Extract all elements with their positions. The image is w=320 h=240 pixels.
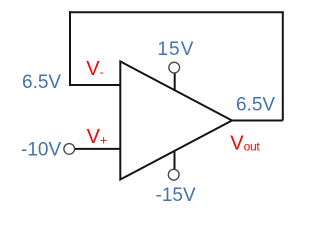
- wire: output from op-amp apex: [232, 120, 283, 122]
- svg-text:V+: V+: [87, 126, 108, 148]
- wire: feedback left vertical: [69, 11, 71, 86]
- terminal circle: +15V supply: [169, 62, 180, 73]
- svg-text:-15V: -15V: [156, 185, 196, 206]
- wire: -15V supply stem: [174, 151, 176, 169]
- op-amp U1: [120, 61, 232, 179]
- wire: +15V supply stem: [174, 73, 176, 90]
- wire: feedback right vertical: [282, 12, 284, 120]
- svg-text:-10V: -10V: [21, 139, 61, 160]
- svg-text:15V: 15V: [157, 39, 194, 60]
- svg-text:V-: V-: [86, 58, 103, 80]
- svg-text:6.5V: 6.5V: [22, 72, 61, 93]
- terminal circle: -10V input: [64, 144, 75, 155]
- svg-text:Vout: Vout: [230, 132, 260, 154]
- svg-text:6.5V: 6.5V: [236, 95, 275, 116]
- wire: inverting input horizontal: [69, 84, 121, 86]
- terminal circle: -15V supply: [168, 169, 179, 180]
- wire: feedback top horizontal: [69, 11, 284, 13]
- wire: non-inverting input horizontal: [75, 148, 121, 150]
